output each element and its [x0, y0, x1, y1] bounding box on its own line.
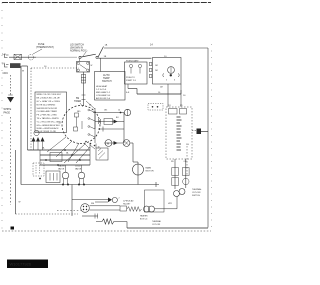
svg-text:GY = GRAY OR = ORNG: GY = GRAY OR = ORNG — [37, 100, 61, 103]
svg-text:5: 5 — [166, 80, 167, 82]
svg-text:TN = TAN WH = WHITE: TN = TAN WH = WHITE — [37, 117, 60, 120]
svg-text:1M: 1M — [155, 65, 158, 67]
svg-text:5M: 5M — [91, 203, 94, 205]
lid switch S1 — [79, 56, 81, 58]
svg-text:GN = GREEN BK-W BLK: GN = GREEN BK-W BLK — [37, 125, 61, 127]
part number mark — [11, 227, 15, 230]
wire row y143 — [104, 142, 123, 144]
console dotted bottom — [16, 213, 79, 215]
svg-text:MAIN: MAIN — [146, 167, 152, 170]
svg-text:TIMER: TIMER — [74, 101, 81, 103]
heater thermostats — [144, 206, 150, 212]
wire row y121 — [95, 121, 124, 123]
svg-text:PAGE: PAGE — [4, 112, 11, 115]
console dotted top — [31, 67, 79, 69]
svg-text:5M: 5M — [76, 98, 79, 100]
lamp L3 — [123, 140, 130, 147]
svg-text:PUSH-START: PUSH-START — [126, 60, 139, 63]
svg-text:CUT-OFF: CUT-OFF — [192, 192, 201, 194]
console dotted left — [30, 68, 32, 150]
svg-text:BOX 5-6: BOX 5-6 — [140, 218, 147, 220]
wire dashed left drop — [10, 117, 12, 205]
main bus y184 — [21, 184, 159, 186]
svg-text:MED HEAT 1-2: MED HEAT 1-2 — [96, 91, 111, 94]
thermal protector circle — [28, 54, 34, 60]
svg-text:2M: 2M — [160, 87, 163, 89]
svg-text:CUT-OFF: CUT-OFF — [152, 224, 161, 226]
svg-text:LOW HEAT 3-4: LOW HEAT 3-4 — [96, 94, 111, 97]
wire drop x72 — [71, 185, 73, 217]
buzzer B1 — [124, 109, 130, 115]
svg-text:2M: 2M — [155, 70, 158, 72]
relay zigzag — [127, 207, 141, 212]
wire drop to drum motor — [132, 143, 134, 162]
auto temp switch box — [95, 72, 126, 101]
cycling thermostat — [183, 168, 190, 176]
wire left vertical 3 — [15, 150, 17, 214]
wire drop from TB1 — [83, 72, 85, 106]
svg-text:THERMAL: THERMAL — [152, 220, 161, 223]
svg-text:M: M — [107, 142, 109, 146]
wire L1 — [9, 56, 36, 58]
svg-text:THERMAL: THERMAL — [192, 188, 202, 191]
junction to right bus — [192, 130, 197, 132]
motor box drop — [167, 84, 169, 107]
svg-text:YL = YELLOW GN = GRN: YL = YELLOW GN = GRN — [37, 121, 62, 123]
node 1 circle — [34, 130, 39, 135]
svg-text:COLD: COLD — [75, 166, 81, 168]
relay enclosure — [95, 144, 97, 149]
motor M1 — [168, 67, 175, 74]
svg-text:VALVE: VALVE — [75, 167, 82, 170]
svg-text:W-BK = WHITE-BLACK: W-BK = WHITE-BLACK — [37, 127, 60, 130]
arrow — [108, 198, 112, 203]
timer feed diagonals — [47, 137, 66, 152]
small relay box — [120, 206, 127, 211]
connector J1 — [81, 75, 85, 84]
heater element arrows — [32, 137, 36, 142]
wire row y129 — [98, 128, 124, 130]
svg-text:START 2-3: START 2-3 — [126, 79, 137, 82]
ground lead dashed — [10, 75, 12, 96]
wire 1B — [98, 57, 151, 59]
chassis dashed border right — [211, 44, 213, 231]
svg-text:CDC: CDC — [3, 71, 9, 75]
wire N stub — [22, 65, 28, 67]
part number block — [7, 260, 48, 269]
wire row y216 — [82, 215, 98, 217]
extra timer diagonals — [64, 144, 85, 163]
svg-text:41: 41 — [59, 123, 61, 125]
svg-text:SWITCH: SWITCH — [102, 80, 112, 83]
svg-text:(THERMOSTAT): (THERMOSTAT) — [36, 46, 54, 49]
svg-text:14: 14 — [118, 110, 120, 112]
svg-text:PUSH TO: PUSH TO — [126, 77, 135, 79]
svg-text:SHOWN WITH DOOR: SHOWN WITH DOOR — [37, 108, 58, 110]
svg-text:16: 16 — [98, 147, 100, 149]
svg-text:W: W — [19, 202, 21, 204]
contact — [98, 119, 100, 124]
motor switch rect — [50, 153, 62, 162]
svg-text:HIGH HEAT: HIGH HEAT — [96, 85, 108, 88]
heater row — [90, 209, 121, 211]
wire from start switch — [127, 84, 129, 89]
svg-text:MOTOR: MOTOR — [146, 171, 155, 173]
svg-text:NOTE: ALL WIRING: NOTE: ALL WIRING — [37, 103, 56, 106]
svg-text:CLOSED AND TIMER: CLOSED AND TIMER — [37, 110, 58, 113]
wire corner to bottom bus — [126, 222, 128, 229]
chassis dashed border bottom — [2, 230, 211, 232]
svg-text:WATER: WATER — [58, 165, 66, 168]
wire left drop — [94, 113, 96, 130]
pump P1 — [112, 197, 117, 202]
svg-text:W10177926: W10177926 — [10, 262, 32, 267]
svg-text:AIR FLUFF 5-6: AIR FLUFF 5-6 — [96, 97, 111, 100]
svg-text:RD-W OR-BK YL-RD: RD-W OR-BK YL-RD — [37, 131, 57, 133]
wire left vertical 1 — [20, 66, 22, 185]
svg-text:1-2 3-4 5-6: 1-2 3-4 5-6 — [96, 89, 107, 91]
drop to auto temp — [100, 58, 102, 71]
wire right bus — [207, 48, 209, 228]
thermal cutoff blob — [174, 191, 180, 197]
hi-limit thermostat — [172, 168, 179, 176]
drive motor M4 — [81, 204, 90, 213]
svg-text:HEATER: HEATER — [140, 215, 148, 218]
moisture sensor dashed box — [166, 107, 192, 159]
thermostat wire pair — [174, 159, 176, 189]
svg-text:HTR: HTR — [168, 203, 173, 205]
svg-text:185: 185 — [104, 110, 107, 112]
svg-text:VALVE: VALVE — [58, 167, 65, 170]
svg-text:1-PIECE AD: 1-PIECE AD — [123, 200, 134, 203]
svg-text:WIRE COLOR CODE KEY: WIRE COLOR CODE KEY — [37, 94, 62, 96]
wire left vertical 2 — [27, 66, 29, 150]
connector P3 — [148, 104, 163, 111]
dashed component left — [33, 163, 44, 176]
dashed drop right — [186, 146, 188, 176]
wire row y112 — [93, 112, 124, 114]
relay box — [104, 119, 113, 125]
chassis dashed border top — [2, 2, 211, 4]
connector pins — [149, 63, 152, 66]
terminal block TB1 — [79, 59, 80, 62]
svg-text:BK = BLACK BU = BLUE: BK = BLACK BU = BLUE — [37, 97, 61, 100]
svg-text:3B5: 3B5 — [77, 111, 80, 113]
dashed feed — [57, 210, 81, 212]
push to start switch box — [125, 62, 148, 84]
wire to top bus — [98, 47, 103, 57]
svg-text:NORMAL POS.): NORMAL POS.) — [70, 50, 88, 53]
svg-text:6: 6 — [174, 80, 175, 82]
fuse block N (solid) — [10, 63, 21, 68]
plug L1 — [5, 54, 9, 58]
wire top bus 1A — [104, 47, 208, 49]
svg-text:SWITCH: SWITCH — [192, 195, 200, 197]
svg-text:PK = PINK RD = RED: PK = PINK RD = RED — [37, 115, 58, 117]
ground symbol — [7, 97, 14, 103]
plug N — [5, 64, 9, 68]
chassis dashed border left — [1, 3, 3, 232]
drum motor M3 — [133, 164, 144, 175]
heater resistor — [96, 219, 127, 224]
svg-text:2: 2 — [119, 198, 120, 200]
timer contacts — [75, 113, 79, 117]
fuse F1 — [14, 54, 22, 59]
wire right vertical — [123, 113, 125, 144]
bottom bus — [127, 227, 208, 229]
solenoid A — [65, 165, 67, 172]
heater box — [145, 190, 165, 212]
wire row y199 — [72, 199, 108, 201]
drive motor box — [153, 58, 182, 85]
timer T1 dashed circle — [62, 106, 100, 144]
solenoid B — [81, 165, 83, 172]
svg-text:W: W — [91, 65, 93, 67]
wire rows left bundle — [28, 149, 91, 151]
timer cam contacts — [94, 108, 96, 143]
svg-text:HI-LIMIT: HI-LIMIT — [123, 203, 131, 205]
motor sym M2 — [105, 140, 112, 147]
legend box — [35, 92, 67, 133]
